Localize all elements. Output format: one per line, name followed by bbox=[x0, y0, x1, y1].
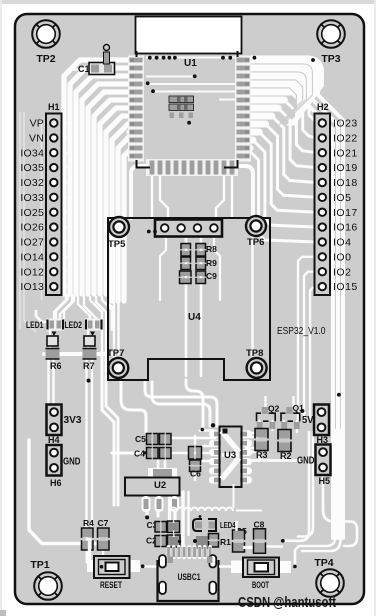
header H5 GND bbox=[316, 445, 331, 476]
svg-text:R4: R4 bbox=[83, 518, 94, 528]
via right column bbox=[337, 393, 341, 397]
svg-text:IO0: IO0 bbox=[333, 251, 351, 263]
svg-text:IO17: IO17 bbox=[333, 207, 358, 219]
svg-text:IO22: IO22 bbox=[333, 133, 358, 145]
connector USBC1 bbox=[167, 545, 212, 559]
svg-text:TP1: TP1 bbox=[30, 559, 49, 571]
svg-text:C9: C9 bbox=[206, 271, 217, 281]
regulator U2 bbox=[148, 468, 177, 478]
svg-text:IO26: IO26 bbox=[20, 222, 44, 234]
svg-text:Q1: Q1 bbox=[293, 403, 305, 413]
testpoint TP7 bbox=[108, 358, 128, 378]
svg-text:BOOT: BOOT bbox=[252, 580, 269, 591]
wire USB columns bbox=[168, 497, 171, 546]
via near 5V bbox=[300, 409, 304, 413]
svg-text:C7: C7 bbox=[98, 518, 109, 528]
svg-text:U3: U3 bbox=[224, 450, 236, 461]
svg-text:RESET: RESET bbox=[100, 580, 122, 591]
svg-text:TP4: TP4 bbox=[314, 557, 333, 569]
svg-text:TP7: TP7 bbox=[107, 348, 124, 359]
vias top row bbox=[146, 56, 315, 125]
pad H2-4 IO19 bbox=[319, 164, 326, 171]
svg-text:IO23: IO23 bbox=[333, 118, 358, 130]
header H2 bbox=[315, 114, 331, 296]
svg-text:R8: R8 bbox=[206, 244, 217, 254]
testpoint TP3 bbox=[317, 20, 345, 65]
header H1 bbox=[46, 114, 62, 296]
pad H1-8 IO26 bbox=[50, 223, 57, 230]
wire LED2/R7 vertical bbox=[87, 330, 89, 352]
capacitor C6 bbox=[189, 447, 195, 460]
header J1 4-pin bbox=[155, 220, 222, 237]
wire into Q2/Q1 tops bbox=[264, 396, 266, 410]
pad H1-1 VP bbox=[50, 119, 57, 126]
svg-text:IO12: IO12 bbox=[20, 266, 44, 278]
svg-text:IO15: IO15 bbox=[333, 281, 358, 293]
svg-text:R2: R2 bbox=[280, 451, 292, 461]
svg-text:LED2: LED2 bbox=[65, 320, 83, 330]
module U1 antenna bbox=[136, 17, 242, 54]
svg-text:USBC1: USBC1 bbox=[178, 572, 202, 583]
resistor R6 upper pad bbox=[47, 336, 58, 346]
testpoint TP2 bbox=[32, 20, 60, 65]
svg-text:R3: R3 bbox=[256, 450, 268, 460]
wire LED1/R6 vertical bbox=[49, 330, 51, 352]
pad H2-9 IO4 bbox=[319, 238, 326, 245]
svg-text:IO5: IO5 bbox=[333, 192, 351, 204]
svg-text:LED4: LED4 bbox=[220, 520, 236, 530]
pad H2-3 IO21 bbox=[319, 149, 326, 156]
svg-text:R6: R6 bbox=[50, 361, 62, 371]
wire C5 C4 to U3 bbox=[172, 437, 215, 440]
pad H2-6 IO5 bbox=[319, 194, 326, 201]
svg-text:C1: C1 bbox=[78, 64, 90, 74]
wire U1 internal bbox=[147, 57, 243, 59]
svg-text:H6: H6 bbox=[50, 478, 62, 488]
svg-text:CSDN @hantusoft: CSDN @hantusoft bbox=[238, 594, 336, 611]
pad H2-10 IO0 bbox=[319, 253, 326, 260]
svg-text:ESP32_V1.0: ESP32_V1.0 bbox=[277, 326, 326, 337]
pad H2-1 IO23 bbox=[319, 119, 326, 126]
vias near U3 bbox=[211, 423, 215, 427]
wire USB to BOOT left pad bbox=[219, 565, 232, 568]
U2 pins below bbox=[142, 496, 151, 512]
U1 internal chips bbox=[169, 96, 194, 111]
wire Q-R stubs bbox=[258, 421, 260, 430]
svg-text:5V: 5V bbox=[302, 415, 314, 426]
svg-text:GND: GND bbox=[297, 456, 315, 467]
svg-text:GND: GND bbox=[63, 457, 81, 468]
IC U3 bbox=[209, 430, 252, 483]
button BOOT bbox=[280, 561, 291, 573]
resistor R7 upper pad bbox=[84, 336, 95, 346]
wire H5 bottom loop bbox=[323, 477, 357, 546]
wire LED4 to R5 bbox=[235, 521, 237, 531]
svg-text:TP8: TP8 bbox=[246, 348, 263, 359]
svg-text:VP: VP bbox=[30, 118, 44, 130]
pad H1-3 IO34 bbox=[50, 149, 57, 156]
pad H2-5 IO18 bbox=[319, 179, 326, 186]
part above C1 bbox=[104, 52, 110, 64]
copper bundle mass top-right bbox=[250, 55, 324, 125]
wire H2 bottom stubs bbox=[298, 257, 316, 420]
header H3 5V bbox=[314, 405, 329, 436]
resistor R3 bbox=[255, 429, 268, 438]
svg-text:IO34: IO34 bbox=[20, 147, 44, 159]
module U1 right pads bbox=[235, 56, 251, 162]
svg-text:IO19: IO19 bbox=[333, 162, 358, 174]
svg-text:LED1: LED1 bbox=[26, 320, 44, 330]
svg-text:TP5: TP5 bbox=[108, 239, 126, 250]
pad H2-2 IO22 bbox=[319, 134, 326, 141]
LED LED4 bbox=[193, 519, 216, 531]
svg-text:C6: C6 bbox=[190, 469, 201, 479]
wire H4 to top bbox=[49, 405, 54, 412]
svg-text:H5: H5 bbox=[319, 476, 331, 486]
arrows LED bbox=[52, 332, 57, 337]
testpoint TP4 bbox=[314, 557, 343, 597]
svg-text:IO4: IO4 bbox=[333, 237, 351, 249]
wire R5-C8 bottom link bbox=[243, 546, 254, 549]
pad H2-11 IO2 bbox=[319, 268, 326, 275]
capacitor C1 bbox=[89, 63, 115, 75]
resistor R1 bbox=[196, 536, 208, 549]
pad H1-6 IO33 bbox=[50, 194, 57, 201]
wire R6-R7 horizontal bbox=[44, 352, 112, 356]
wire left of C1 bbox=[70, 68, 90, 70]
testpoint TP8 bbox=[247, 358, 267, 378]
svg-text:H1: H1 bbox=[48, 102, 60, 112]
button RESET bbox=[87, 560, 95, 572]
testpoint TP1 bbox=[30, 559, 61, 600]
svg-text:IO2: IO2 bbox=[333, 266, 351, 278]
pad H2-7 IO17 bbox=[319, 209, 326, 216]
wire C6 bbox=[186, 452, 188, 455]
transistor Q2 bbox=[262, 407, 268, 414]
svg-text:H4: H4 bbox=[48, 435, 60, 445]
wire right edge power bbox=[295, 430, 336, 563]
svg-text:U4: U4 bbox=[188, 312, 201, 323]
svg-text:C8: C8 bbox=[254, 520, 265, 530]
svg-text:Q2: Q2 bbox=[268, 404, 280, 414]
wire LED1 top hook bbox=[36, 310, 47, 322]
svg-text:IO33: IO33 bbox=[20, 192, 44, 204]
pad H1-10 IO14 bbox=[50, 253, 57, 260]
header H4 3V3 bbox=[47, 405, 62, 436]
module U4 outline bbox=[108, 218, 270, 380]
svg-text:IO13: IO13 bbox=[20, 281, 44, 293]
svg-text:IO25: IO25 bbox=[20, 207, 44, 219]
wire faint left of H1 bbox=[20, 112, 42, 332]
wire scallop run below U3 bbox=[170, 484, 262, 511]
resistor R9 bbox=[181, 257, 191, 262]
resistor R6 bbox=[46, 349, 60, 360]
svg-text:IO32: IO32 bbox=[20, 177, 44, 189]
svg-text:H2: H2 bbox=[317, 102, 329, 112]
svg-text:R7: R7 bbox=[83, 361, 95, 371]
via below R7 bbox=[87, 379, 91, 383]
pad H1-5 IO32 bbox=[50, 179, 57, 186]
svg-text:U1: U1 bbox=[184, 58, 197, 69]
pad H1-9 IO27 bbox=[50, 238, 57, 245]
svg-text:TP3: TP3 bbox=[321, 53, 340, 65]
svg-text:VN: VN bbox=[29, 133, 44, 145]
resistor R7 bbox=[83, 349, 97, 360]
via near C8 bbox=[281, 539, 285, 543]
wire bundle U1-left to H1 bbox=[64, 60, 129, 294]
pad H2-12 IO15 bbox=[319, 283, 326, 290]
svg-text:R1: R1 bbox=[220, 537, 231, 547]
svg-text:IO14: IO14 bbox=[20, 251, 44, 263]
svg-text:IO16: IO16 bbox=[333, 222, 358, 234]
resistor R2 bbox=[278, 430, 291, 439]
module U1 left pads bbox=[128, 56, 144, 162]
wire U4 internal verticals bbox=[113, 238, 115, 357]
testpoint TP6 bbox=[246, 216, 266, 236]
svg-text:TP2: TP2 bbox=[36, 53, 55, 65]
wire RESET right to USB bbox=[140, 565, 158, 568]
svg-text:3V3: 3V3 bbox=[64, 415, 82, 426]
pad H1-12 IO13 bbox=[50, 283, 57, 290]
header H6 GND bbox=[47, 445, 62, 476]
svg-text:IO21: IO21 bbox=[333, 147, 358, 159]
pad H1-11 IO12 bbox=[50, 268, 57, 275]
wire fan below H1 to LEDs bbox=[54, 295, 66, 318]
pad H1-2 VN bbox=[50, 134, 57, 141]
svg-text:R9: R9 bbox=[206, 258, 217, 268]
svg-text:IO35: IO35 bbox=[20, 162, 44, 174]
svg-text:IO27: IO27 bbox=[20, 237, 44, 249]
USBC1 mount pad 3 bbox=[159, 582, 166, 595]
svg-text:U2: U2 bbox=[154, 480, 166, 491]
capacitor C9 bbox=[180, 271, 192, 276]
module U1 bottom pads bbox=[146, 159, 238, 176]
pad H1-4 IO35 bbox=[50, 164, 57, 171]
wire left edge to RESET bbox=[29, 440, 108, 544]
testpoint TP5 bbox=[109, 217, 129, 237]
svg-text:C5: C5 bbox=[135, 434, 146, 444]
pad H1-7 IO25 bbox=[50, 209, 57, 216]
vias left of header bbox=[147, 230, 151, 234]
wire U1 bottom to U4 bbox=[131, 166, 146, 218]
module U1 silkscreen corners bbox=[137, 51, 238, 168]
USBC1 mount pad 4 bbox=[209, 582, 216, 595]
wire bundle U1-right to H2 bbox=[250, 60, 343, 538]
USBC1 mount pad 1 bbox=[159, 555, 166, 568]
wire H1 stubs bbox=[56, 122, 66, 124]
wire U4 to U3 bbox=[121, 382, 146, 432]
svg-text:TP6: TP6 bbox=[247, 237, 264, 248]
resistor R8 bbox=[181, 244, 191, 249]
transistor Q1 bbox=[286, 407, 292, 414]
svg-text:IO18: IO18 bbox=[333, 177, 358, 189]
USBC1 mount pad 2 bbox=[209, 555, 216, 568]
pad H2-8 IO16 bbox=[319, 223, 326, 230]
